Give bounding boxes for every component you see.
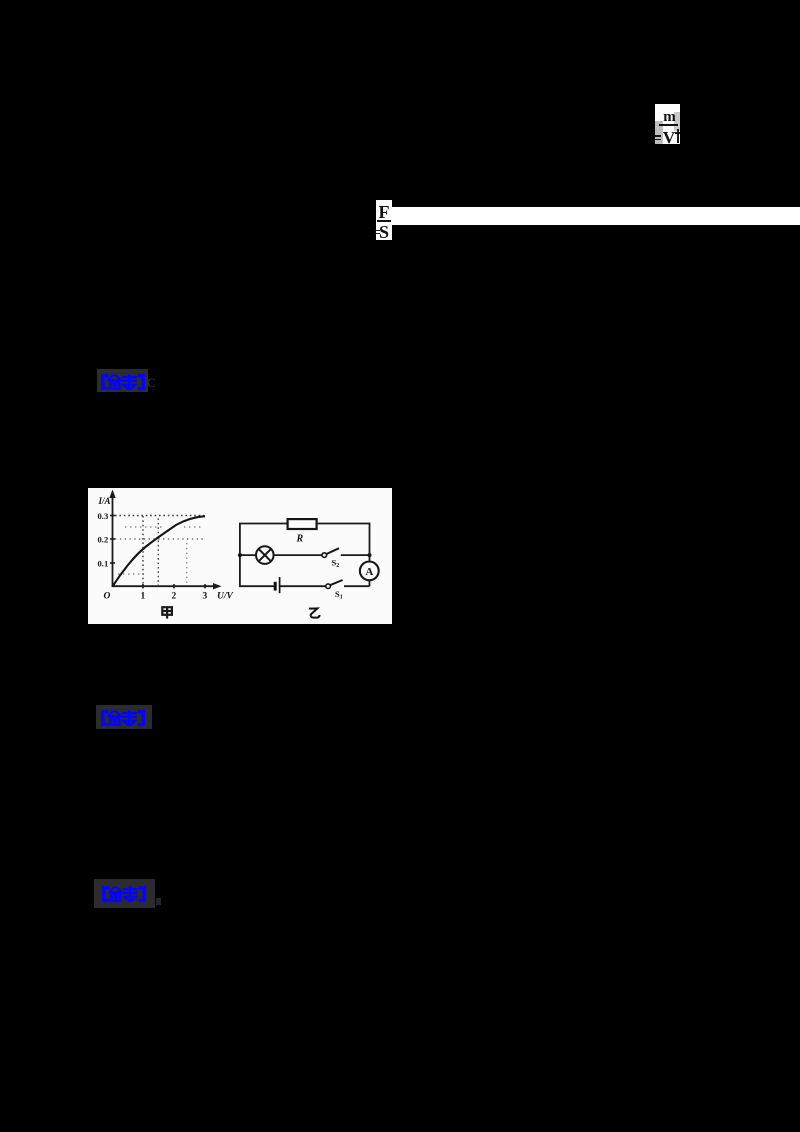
dotted gridline at I=0.3 — [115, 515, 204, 517]
resistor R — [288, 519, 317, 529]
y-axis tick 0.1 — [110, 562, 115, 564]
svg-text:A: A — [365, 566, 373, 578]
shared blue bracket-label glyphs definition — [0, 0, 2, 2]
equals sign fragment — [655, 135, 661, 137]
I-U characteristic curve — [113, 516, 206, 586]
graph x-axis arrowhead — [213, 583, 222, 589]
dotted vertical at U=2.4 — [186, 543, 188, 585]
numerator m — [661, 109, 678, 126]
switch S1 — [326, 580, 343, 589]
middle wire — [240, 554, 370, 556]
denominator V — [660, 129, 678, 147]
svg-text:0.2: 0.2 — [98, 535, 109, 545]
faint dotted segments at I=0.25 — [125, 526, 165, 528]
svg-text:R: R — [296, 534, 304, 545]
bottom wire — [239, 585, 370, 587]
dotted vertical at U=1 — [142, 516, 144, 585]
svg-text:1: 1 — [141, 592, 146, 602]
blue label 1 background box — [97, 369, 148, 392]
partial glyph right of V — [677, 129, 679, 143]
dotted vertical at U=1.5 — [157, 519, 159, 586]
formula box rho = m/V — [655, 104, 680, 144]
y-axis tick 0.2 — [110, 538, 115, 540]
ammeter A — [360, 562, 379, 581]
svg-text:O: O — [104, 592, 111, 602]
equals sign fragment — [375, 230, 380, 232]
formula box p = F/S — [376, 200, 392, 240]
numerator F — [376, 203, 392, 221]
x-axis tick 3 — [204, 584, 206, 588]
blue label 1 bracket text — [99, 374, 147, 390]
battery positive plate (long thin) — [279, 577, 281, 593]
faint residue dot after label 3 — [156, 898, 161, 905]
blue label 2 bracket text — [99, 710, 147, 726]
svg-text:0.3: 0.3 — [98, 511, 109, 521]
graph x-axis — [112, 585, 216, 587]
figure: graph and circuit — [88, 488, 392, 624]
faint residue glyph after label 1 — [147, 375, 153, 389]
junction node right — [368, 553, 372, 557]
faint dotted segment at I=0.05 — [118, 573, 144, 575]
svg-text:I/A: I/A — [98, 496, 111, 506]
blue label 2 background box — [96, 705, 152, 729]
fraction bar — [659, 124, 678, 126]
circuit left vertical wire — [239, 524, 241, 587]
y-axis tick 0.3 — [110, 515, 115, 517]
dotted gridline at I=0.2 — [115, 538, 204, 540]
caption yi (circuit) — [309, 608, 320, 617]
svg-text:0.1: 0.1 — [98, 559, 109, 569]
lamp — [256, 546, 274, 564]
svg-text:3: 3 — [203, 592, 208, 602]
switch S2 — [322, 548, 339, 557]
svg-text:U/V: U/V — [217, 592, 234, 602]
fraction bar — [377, 220, 391, 222]
denominator S — [376, 223, 392, 241]
graph y-axis arrowhead — [109, 490, 115, 499]
white highlighted line strip — [392, 207, 800, 225]
battery negative plate (short thick) — [274, 582, 277, 591]
blue label 3 background box — [94, 879, 155, 908]
circuit top wire — [239, 523, 370, 525]
svg-text:2: 2 — [172, 592, 177, 602]
caption jia (graph) — [162, 607, 172, 618]
x-axis tick 2 — [173, 584, 175, 588]
x-axis tick 1 — [142, 584, 144, 588]
circuit right vertical wire — [369, 523, 371, 587]
blue label 3 bracket text — [100, 886, 148, 902]
graph y-axis — [112, 495, 114, 587]
junction node left — [238, 553, 242, 557]
